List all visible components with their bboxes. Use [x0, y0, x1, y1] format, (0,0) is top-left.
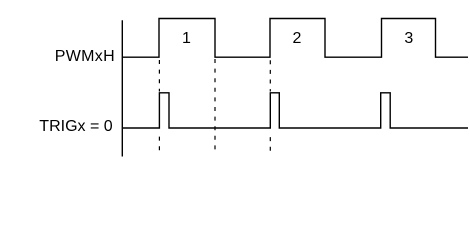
- wire dashed line at pulse 1 falling edge: [214, 59, 216, 149]
- svg-text:PWMxH: PWMxH: [55, 48, 115, 65]
- wire dashed line at pulse 1 rising edge (upper): [158, 60, 160, 92]
- svg-text:TRIGx = 0: TRIGx = 0: [39, 118, 112, 135]
- wire dashed line at pulse 2 rising edge (lower): [269, 137, 271, 151]
- wire dashed line at pulse 2 rising edge (upper): [269, 60, 271, 91]
- wire dashed line at pulse 1 rising edge (lower): [158, 137, 160, 151]
- axis vertical line: [121, 20, 123, 156]
- svg-text:1: 1: [182, 30, 191, 47]
- svg-text:3: 3: [404, 30, 413, 47]
- svg-text:2: 2: [293, 30, 302, 47]
- wire PWMxH waveform: [122, 19, 468, 58]
- wire TRIGx waveform: [122, 93, 468, 128]
